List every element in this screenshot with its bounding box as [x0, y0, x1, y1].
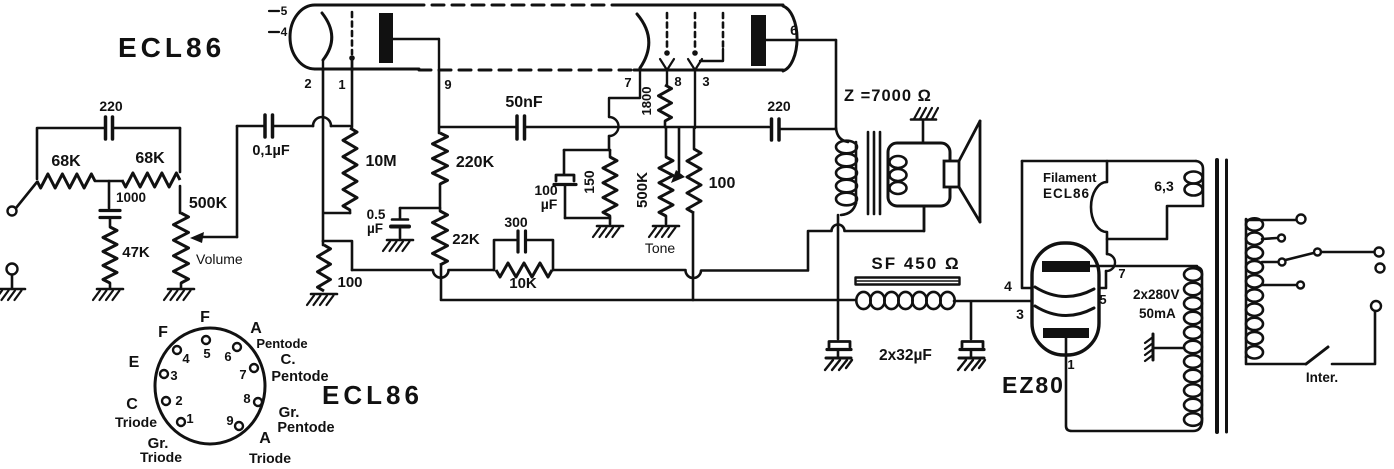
svg-text:9: 9	[226, 413, 233, 428]
svg-text:2: 2	[304, 76, 311, 91]
svg-text:Gr.: Gr.	[279, 404, 300, 421]
triode cathode lead	[322, 71, 325, 241]
svg-text:Volume: Volume	[196, 251, 243, 267]
svg-text:10K: 10K	[509, 275, 537, 292]
filament hop over plate wire	[1106, 254, 1115, 271]
svg-text:500K: 500K	[634, 172, 651, 208]
spare terminal	[1376, 264, 1385, 273]
tube EZ80 envelope	[1032, 243, 1099, 355]
capacitor 0,1µF	[237, 115, 313, 159]
cathode feedback jog	[323, 241, 352, 270]
svg-text:A: A	[259, 430, 271, 447]
svg-text:Triode: Triode	[249, 450, 291, 466]
socket outline	[155, 328, 265, 444]
svg-text:SF 450 Ω: SF 450 Ω	[871, 254, 960, 273]
triode plate (pin 9)	[379, 13, 452, 92]
svg-text:100: 100	[337, 274, 362, 291]
svg-text:A: A	[250, 320, 262, 337]
svg-text:220: 220	[99, 98, 123, 114]
pentode cathode lead	[608, 136, 611, 150]
capacitor 100µF	[534, 150, 610, 218]
capacitor 2x32µF (left)	[827, 342, 851, 358]
capacitor 50nF	[440, 94, 665, 139]
svg-text:3: 3	[702, 74, 709, 89]
socket pin 1	[177, 411, 194, 426]
svg-text:µF: µF	[367, 221, 383, 236]
label 2x280V 50mA	[1133, 287, 1180, 321]
wire jack to 68K	[16, 182, 37, 208]
EZ80 heater arc	[1035, 287, 1094, 297]
svg-text:C.: C.	[281, 351, 296, 368]
svg-text:0.5: 0.5	[367, 207, 386, 222]
capacitor 220 (coupling)	[767, 98, 836, 140]
input jack J2	[7, 264, 18, 289]
capacitor 1000	[100, 181, 146, 227]
resistor 47K	[103, 227, 150, 288]
svg-text:8: 8	[674, 74, 681, 89]
mains switch Inter.	[1246, 301, 1381, 385]
svg-text:2: 2	[175, 393, 182, 408]
screen lead to B+	[692, 213, 695, 300]
B+ rail	[441, 299, 855, 302]
socket pin 6	[224, 343, 241, 364]
svg-text:C: C	[126, 396, 138, 413]
resistor 68K (right)	[122, 150, 180, 187]
potentiometer 500K Volume	[174, 186, 228, 288]
svg-text:220K: 220K	[456, 154, 495, 171]
svg-text:Pentode: Pentode	[271, 369, 328, 385]
svg-text:5: 5	[203, 346, 210, 361]
svg-text:ECL86: ECL86	[322, 380, 423, 410]
pentode suppressor g3	[700, 13, 723, 61]
EZ80 plate 1 (pin 7)	[1042, 261, 1197, 281]
svg-text:Tone: Tone	[645, 240, 676, 256]
pentode plate lead down	[835, 40, 838, 128]
svg-text:50mA: 50mA	[1139, 306, 1176, 321]
svg-text:10M: 10M	[365, 153, 396, 170]
EZ80 cathode arc	[1035, 306, 1094, 316]
tap terminal 4	[1262, 282, 1304, 289]
svg-text:2x280V: 2x280V	[1133, 287, 1180, 302]
svg-text:4: 4	[182, 351, 190, 366]
capacitor 220 (input)	[37, 98, 180, 179]
input jack J1	[8, 207, 17, 216]
svg-text:Z =7000 Ω: Z =7000 Ω	[844, 87, 932, 105]
ground 0.5µF	[383, 240, 413, 251]
svg-text:150: 150	[581, 170, 597, 194]
pentode grid g1 (pin 8)	[660, 13, 682, 89]
socket pin 4	[173, 346, 190, 366]
triode plate lead	[438, 71, 441, 133]
socket pin 8	[243, 391, 262, 406]
feedback rail right	[553, 206, 924, 278]
resistor 1800	[639, 85, 672, 127]
capacitor 300 / resistor 10K parallel	[494, 214, 553, 292]
svg-text:4: 4	[1004, 278, 1012, 294]
svg-text:2x32µF: 2x32µF	[879, 347, 932, 364]
svg-text:µF: µF	[541, 196, 558, 212]
socket pin 9	[226, 413, 243, 430]
tap terminal 2	[1262, 235, 1285, 242]
socket label C Triode	[115, 396, 157, 430]
ground cap left	[825, 358, 852, 370]
socket label A Pentode	[250, 320, 307, 351]
svg-text:F: F	[200, 309, 210, 326]
heater winding 6,3	[1107, 161, 1203, 239]
ground J2	[0, 289, 25, 300]
resistor 100 (cathode)	[318, 241, 363, 291]
capacitor 0.5µF	[367, 207, 409, 238]
svg-text:E: E	[129, 354, 140, 371]
center tap ground	[1145, 334, 1184, 361]
triode cathode (pin 2)	[304, 13, 331, 91]
svg-text:Filament: Filament	[1043, 170, 1097, 185]
resistor 10M	[343, 128, 397, 213]
svg-text:1800: 1800	[639, 87, 654, 116]
svg-text:68K: 68K	[51, 153, 81, 170]
wire to grid node	[331, 125, 350, 128]
svg-text:6: 6	[224, 349, 231, 364]
svg-text:8: 8	[243, 391, 250, 406]
svg-text:1: 1	[1067, 357, 1074, 372]
tap terminal top	[1246, 215, 1306, 224]
socket pin 5	[202, 336, 211, 361]
svg-text:3: 3	[170, 368, 177, 383]
svg-text:300: 300	[504, 214, 528, 230]
tone wiper	[671, 128, 685, 183]
triode grid (pin 1)	[338, 12, 354, 92]
tube ECL86 envelope	[290, 5, 797, 71]
svg-text:5: 5	[281, 4, 288, 18]
potentiometer 500K Tone	[634, 128, 673, 224]
svg-text:ECL86: ECL86	[1043, 186, 1090, 201]
capacitor 2x32µF (right)	[960, 302, 984, 357]
pentode screen g2 (pin 3)	[688, 13, 710, 128]
ground volume pot	[164, 289, 194, 300]
svg-text:47K: 47K	[122, 244, 150, 261]
OT primary bottom lead	[837, 215, 840, 339]
svg-text:7: 7	[1118, 266, 1125, 281]
socket pin 7	[239, 364, 258, 382]
resistor 22K	[433, 211, 480, 265]
EZ80 pin 5 step	[1099, 271, 1107, 307]
OT secondary	[888, 143, 950, 206]
svg-text:50nF: 50nF	[505, 94, 543, 111]
socket pin 3	[160, 368, 178, 383]
svg-text:100: 100	[709, 175, 736, 192]
svg-text:68K: 68K	[135, 150, 165, 167]
resistor 68K (left)	[37, 153, 95, 188]
svg-text:6,3: 6,3	[1154, 178, 1174, 194]
speaker	[944, 121, 980, 222]
choke SF 450	[856, 254, 961, 309]
svg-text:1000: 1000	[116, 190, 146, 205]
HT winding	[1184, 267, 1202, 426]
svg-text:Pentode: Pentode	[277, 420, 334, 436]
heater pin stub 4	[269, 25, 288, 39]
socket label A Triode	[249, 430, 291, 466]
ground 100	[307, 294, 337, 305]
wire cathode node	[564, 149, 610, 152]
svg-text:1: 1	[186, 411, 193, 426]
transformer core	[1217, 160, 1227, 432]
svg-text:7: 7	[624, 75, 631, 90]
ground cap right	[958, 358, 985, 370]
svg-text:ECL86: ECL86	[118, 32, 225, 63]
svg-text:220: 220	[767, 98, 791, 114]
svg-text:0,1µF: 0,1µF	[252, 143, 290, 159]
socket pin 2	[162, 393, 183, 408]
resistor 150	[581, 150, 617, 224]
socket label Gr. Triode	[140, 435, 182, 465]
pentode cathode (pin 7)	[609, 14, 649, 117]
socket label Gr. Pentode	[277, 404, 334, 436]
resistor 100 (screen)	[687, 128, 735, 213]
svg-text:Inter.: Inter.	[1306, 370, 1338, 385]
svg-text:7: 7	[239, 367, 246, 382]
heater pin stub 5	[269, 4, 288, 18]
volume wiper	[190, 126, 237, 243]
hop over cathode wire	[313, 117, 331, 126]
svg-text:EZ80: EZ80	[1002, 372, 1065, 398]
wire 0.5µF to 22K node	[400, 207, 440, 210]
resistor 220K	[433, 133, 495, 184]
wire node to screen	[665, 126, 769, 129]
svg-text:500K: 500K	[189, 195, 228, 212]
ground 150	[593, 226, 623, 237]
secondary return (feedback)	[923, 206, 926, 231]
wire 10M to cathode	[324, 212, 350, 215]
tap terminal 3	[1262, 248, 1384, 266]
svg-text:Pentode: Pentode	[256, 336, 307, 351]
triode grid lead	[351, 60, 354, 127]
wire 220K-22K	[439, 184, 442, 211]
svg-text:6: 6	[790, 22, 798, 38]
ground Tone	[649, 226, 679, 237]
socket label C. Pentode	[271, 351, 328, 385]
EZ80 plate 2 (pin 1)	[1043, 328, 1202, 431]
feedback rail left	[352, 270, 494, 278]
svg-text:4: 4	[281, 25, 288, 39]
pin7 wire hop	[609, 117, 619, 136]
wire 68K junction	[95, 180, 122, 183]
svg-text:F: F	[158, 324, 168, 341]
svg-text:Triode: Triode	[115, 414, 157, 430]
filament loop ECL86	[1022, 161, 1196, 288]
svg-text:9: 9	[444, 77, 451, 92]
ground 47K	[93, 289, 123, 300]
mains winding	[1246, 218, 1263, 358]
chassis ground (secondary)	[911, 108, 938, 143]
OT primary	[836, 128, 857, 215]
B+ rail to EZ80	[954, 300, 1032, 303]
svg-text:3: 3	[1016, 306, 1024, 322]
wire 22K to B+ rail	[440, 265, 443, 299]
svg-text:Triode: Triode	[140, 449, 182, 465]
pentode plate (pin 6)	[751, 15, 836, 66]
svg-text:22K: 22K	[452, 231, 480, 248]
OT core	[868, 132, 880, 214]
svg-text:1: 1	[338, 77, 345, 92]
